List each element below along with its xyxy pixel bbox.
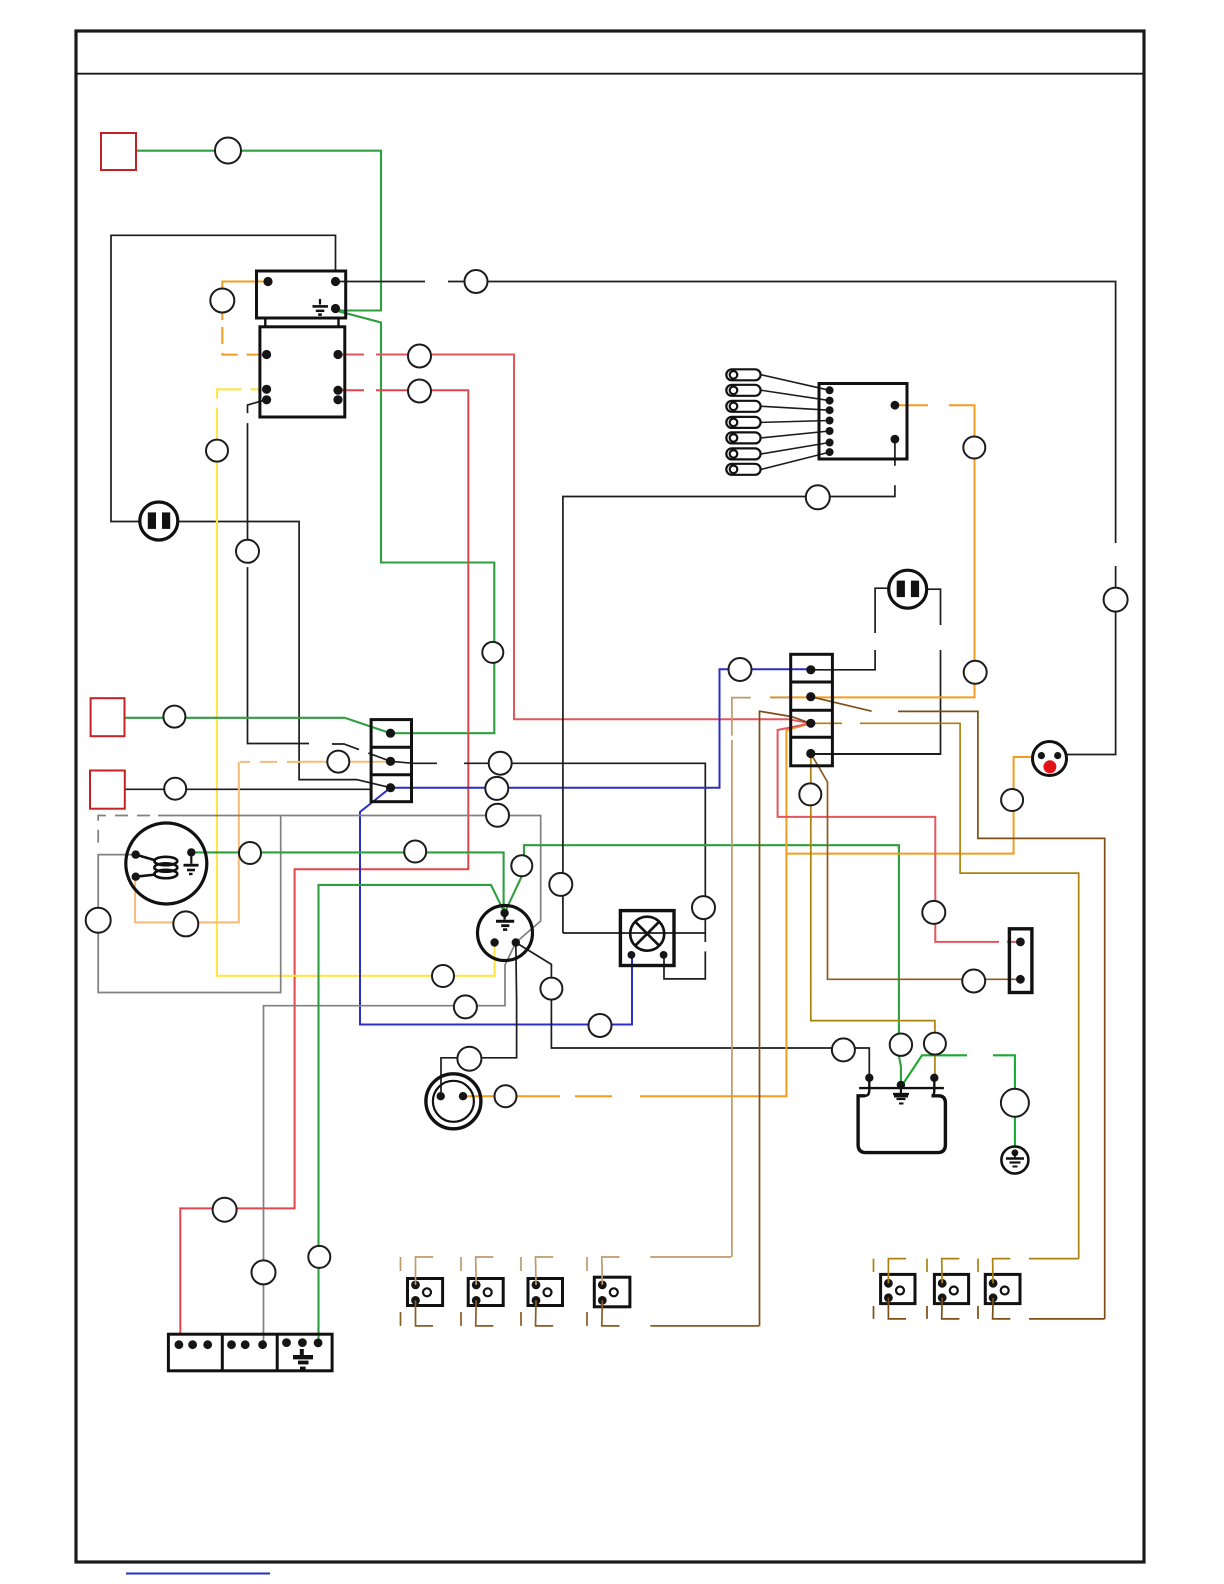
horn H1 right pin [459, 1092, 467, 1100]
connector J2 red square middle left [91, 698, 125, 736]
accessory plug P5 body [1009, 929, 1032, 993]
wire orange relay interface dash [222, 327, 266, 355]
relay K2 pin1 [262, 350, 271, 359]
node callout on orange riser right [963, 437, 985, 459]
switch connector SW6 box (rear group 2) [934, 1274, 968, 1303]
connector P3 terminal 6 [726, 448, 760, 459]
wire blue terminal strip TB1 pin3 to connector P4 pin1 [391, 669, 807, 787]
node callout on gray harness branch [486, 804, 509, 827]
wire brown connector P4 pin4 to accessory plug P5 pin2 [811, 754, 1016, 980]
wire gray motor M1 harness loop [98, 816, 281, 993]
motor M1 pin right [187, 848, 195, 856]
node callout on red bottom run [213, 1198, 237, 1222]
node callout on orange face branch [1001, 789, 1023, 811]
wire blue hyperlink underline bottom left [126, 1573, 270, 1575]
node callout on blue TB1 pin3 wire [485, 777, 508, 800]
wire black battery-feed loop (fuse F1 circuit) [111, 235, 336, 521]
wire black red-square J3 to terminal strip TB1 bottom pin [125, 788, 371, 790]
node callout on black TB1 pin2 vertical [692, 896, 715, 919]
chassis ground G1 circle [1001, 1147, 1028, 1174]
connector face C1 round [1033, 742, 1067, 776]
switch connector SW3 box (front group 3) [528, 1279, 563, 1306]
wire green ignition-to-relay (J1 to relay K1 ground pin) [136, 151, 494, 734]
switch connector SW4 box (front group 4) [594, 1277, 630, 1307]
wire black fuse F2 to connector P4 pin4 [811, 589, 941, 754]
ground block GB1 cell2 pins [227, 1340, 267, 1349]
relay K2 pin2 [262, 385, 271, 394]
connector P4 pin3 [806, 719, 815, 728]
wire brown front group bottom chain [401, 1300, 760, 1326]
terminal strip TB1 pin3 [386, 783, 395, 792]
horn H1 outer ring [426, 1074, 481, 1129]
node callout on orange riser at P4 [964, 661, 987, 684]
wire black ignition switch S1 to horn H1 left pin [441, 943, 517, 1093]
relay K2 box [260, 327, 345, 417]
node callout on right border run [1104, 588, 1128, 612]
battery BT1 center terminal [897, 1081, 905, 1089]
relay K1-K2 interface stubs [264, 318, 266, 327]
ground symbol inside ignition switch S1 [496, 913, 514, 930]
lamp DS1 left pin [628, 951, 636, 959]
motor M1 pin lower-left [132, 873, 140, 881]
relay K1 box [257, 271, 346, 318]
terminal strip TB1 pin2 [386, 757, 395, 766]
fuse box FB1 [819, 384, 907, 460]
wire amber rear group top chain [874, 1259, 1079, 1284]
node callout on pale-orange motor wire [173, 911, 198, 936]
relay K1 pin2 [331, 277, 340, 286]
wire tan front group top chain [401, 1257, 732, 1285]
connector P3 terminal 2 [726, 385, 760, 396]
switch connector SW2 box (front group 2) [468, 1279, 503, 1306]
node callout on gray horn run [457, 1047, 481, 1071]
node callout on green battery wire upper [511, 855, 532, 876]
connector P3 terminal 7 [726, 464, 760, 475]
wire green ground block GB1 to ignition switch S1 top pin [319, 885, 505, 1340]
motor M1 body [126, 823, 207, 904]
ground symbol inside battery BT1 [893, 1086, 909, 1104]
ground symbol inside G1 [1006, 1149, 1024, 1166]
horn H1 left pin [437, 1092, 445, 1100]
node callout on green J2 wire [163, 706, 185, 728]
node callout on yellow wire [206, 440, 228, 462]
lamp DS1 bulb circle with X [630, 917, 664, 951]
node callout on orange horn wire [495, 1085, 517, 1107]
wire gray harness branch to ignition switch S1 right pin [281, 816, 541, 943]
connector P4 block (4-cell) [791, 654, 833, 766]
connector face C1 red pin [1043, 760, 1056, 773]
connector P3 terminal 3 [726, 401, 760, 412]
fuse box FB1 right pin lower [891, 435, 900, 444]
node callout on green motor wire 2 [404, 841, 426, 863]
switch connector SW7 box (rear group 3) [985, 1274, 1020, 1303]
terminal strip TB1 pin1 [386, 729, 395, 738]
connector P4 pin4 [806, 749, 815, 758]
fuse F1 element bars [148, 512, 156, 529]
connector face C1 right pin [1054, 752, 1061, 759]
node callout on green ground drop [1001, 1089, 1029, 1117]
connector P3 terminal 4 [726, 417, 760, 428]
lamp DS1 right pin [660, 951, 668, 959]
wire gray ignition switch S2 right pin to ground block GB1 [264, 943, 516, 1345]
node callout on green run x494 [482, 642, 503, 663]
motor M1 coil [136, 855, 178, 879]
wire brown connector P4 pin3 riser to front connector group [760, 711, 811, 1326]
node callout on green motor wire 1 [239, 842, 261, 864]
ground block GB1 (3-section) [168, 1334, 332, 1371]
node callout on green battery center wire [890, 1034, 912, 1056]
node callout on red P4 pin3 drop [922, 901, 945, 924]
wire green red-square J2 to terminal strip TB1 top pin [125, 718, 391, 733]
wire orange horn H1 right pin to connector P4 pin3 riser [463, 723, 811, 1096]
wire tan connector P4 pin2 interface to front connector group [732, 698, 790, 1257]
node callout on brown P5 wire [962, 970, 985, 993]
lamp DS1 box [620, 911, 674, 966]
node callout on fuse link run [806, 485, 830, 509]
switch connector SW1 box (front group 1) [408, 1279, 443, 1306]
node callout on red wire K2 pin4 [408, 345, 431, 368]
fuse box FB1 right pin upper [891, 401, 900, 410]
node callout on gray S1 ground run [454, 995, 477, 1018]
battery BT1 left terminal [865, 1074, 873, 1082]
wire red connector P4 pin3 to accessory plug P5 pin1 [778, 723, 1016, 942]
node callout on black top run [465, 270, 488, 293]
fuse F2 element bars [897, 581, 905, 598]
wire orange fuse box FB1 pin to connector P4 pin2 [770, 405, 975, 697]
relay K1 pin3 [331, 304, 340, 313]
connector face C1 left pin [1038, 752, 1045, 759]
wire yellow relay K2 pin2 to ignition switch S1 [217, 389, 495, 976]
wire amber connector P4 pin3 run to rear connector group [811, 723, 1079, 1258]
node callout on black J3 wire [164, 778, 186, 800]
accessory plug P5 pin2 [1016, 975, 1025, 984]
node callout on black S1 battery run [549, 873, 572, 896]
node callout on pale-orange TB1 wire [327, 751, 349, 773]
ignition switch S1 left pin [490, 938, 498, 946]
terminal strip TB1 (3-cell) [371, 720, 411, 802]
wire pale-orange corner run to motor M1 [135, 762, 239, 923]
wire black fuse F1 to terminal strip TB1 pin3 [178, 522, 391, 788]
node callout on black TB1 pin2 wire [489, 752, 512, 775]
connector P3 terminal 1 [726, 369, 760, 380]
node callout on black wire K2 pin3 [236, 540, 259, 563]
node callout on amber P4 pin4 riser [799, 783, 821, 805]
ignition switch S1 top pin [500, 909, 508, 917]
wire amber connector P4 pin4 to battery BT1 negative pin [811, 754, 935, 1078]
node callout on green wire top [215, 138, 241, 164]
ground symbol inside GB1 cell3 [293, 1349, 313, 1368]
horn H1 inner ring [433, 1081, 474, 1122]
accessory plug P5 pin1 [1016, 938, 1025, 947]
ignition switch S1 body [478, 906, 533, 961]
connector J1 red square top left [101, 133, 136, 170]
ground block GB1 cell1 pins [175, 1340, 213, 1349]
relay K2 pin4 [333, 350, 342, 359]
wire black relay K1 pin2 long top run to right side and connector face C1 [336, 282, 1116, 755]
node callout on red wire K2 pin5 [408, 380, 431, 403]
relay K2 pin6 [333, 395, 342, 404]
wire orange branch to connector face C1 left pin [786, 757, 1037, 854]
wire green battery BT1 center pin to chassis ground G1 [901, 1055, 1015, 1146]
wire black jumper from fuse-loop to connector column [563, 932, 705, 934]
wire black connector P4 pin1 to fuse F2 [811, 588, 889, 670]
node callout on orange relay wire [210, 289, 234, 313]
fuse F1 body [140, 502, 178, 540]
wire red relay K2 pin5 to ground block GB1 [180, 390, 468, 1334]
wire red relay K2 pin4 long run to connector P4 pin3 [338, 355, 811, 724]
wire blue terminal strip TB1 pin3 to lamp DS1 left pin [360, 788, 632, 1025]
battery BT1 terminal bar [859, 1087, 944, 1089]
node callout on gray GB1 drop [252, 1260, 276, 1284]
fuse box FB1 left pin row [826, 386, 834, 456]
wire black connector P4 pin4 to fuse F2 riser [811, 753, 941, 755]
node callout on green GB1 drop [308, 1246, 330, 1268]
motor M1 pin upper-left [132, 850, 140, 858]
wire orange relay K1 pin1 to relay K2 pin1 [222, 282, 268, 321]
wire pale-orange dashed interface segment [240, 761, 304, 763]
ignition switch S1 right pin [512, 938, 520, 946]
connector J3 red square lower left [90, 771, 125, 809]
node callout on blue wire into P4 [729, 658, 752, 681]
wire gray motor M1 harness loop dashed interface [98, 816, 150, 848]
relay K2 pin5 [333, 386, 342, 395]
wires connector P3 terminals to fuse box FB1 [762, 375, 830, 470]
wire black relay K2 pin3 to terminal strip TB1 pin2 [248, 400, 391, 762]
node callout on black battery left wire [832, 1038, 855, 1061]
fuse F2 body [889, 570, 927, 608]
connector P3 terminal 5 [726, 432, 760, 443]
wire black ignition switch S1 to battery BT1 positive pin [516, 943, 870, 1078]
node callout on black S1 battery vertical [540, 978, 562, 1000]
relay K1 pin1 [263, 277, 272, 286]
connector P4 pin2 [806, 692, 815, 701]
wire brown connector P4 pin2 run to rear connector group [811, 697, 1105, 1319]
wire black fuse box FB1 lower pin to fuse-loop [563, 439, 895, 933]
wire pale-orange terminal strip TB1 pin2 to motor M1 lower pin [304, 761, 391, 763]
wire green ignition switch S1 to battery BT1 center pin [505, 845, 901, 1087]
relay K2 pin3 [262, 395, 271, 404]
switch connector SW5 box (rear group 1) [881, 1274, 915, 1303]
ground symbol inside relay K1 [313, 299, 329, 315]
wire brown rear group bottom chain [874, 1298, 1105, 1319]
node callout on yellow S1 wire [432, 965, 454, 987]
ground symbol inside motor M1 [184, 857, 199, 875]
battery BT1 case [858, 1096, 945, 1153]
wire green motor M1 pin to ignition switch S1 top pin [191, 852, 504, 912]
battery BT1 right terminal [930, 1074, 938, 1082]
node callout on blue lamp wire [589, 1014, 612, 1037]
wire black terminal strip TB1 pin2 to lamp DS1 right pin [391, 761, 706, 979]
connector P4 pin1 [806, 665, 815, 674]
node callout on amber battery right wire [924, 1033, 946, 1055]
ground block GB1 cell3 pins [282, 1338, 322, 1347]
node callout on gray motor loop [86, 908, 111, 933]
